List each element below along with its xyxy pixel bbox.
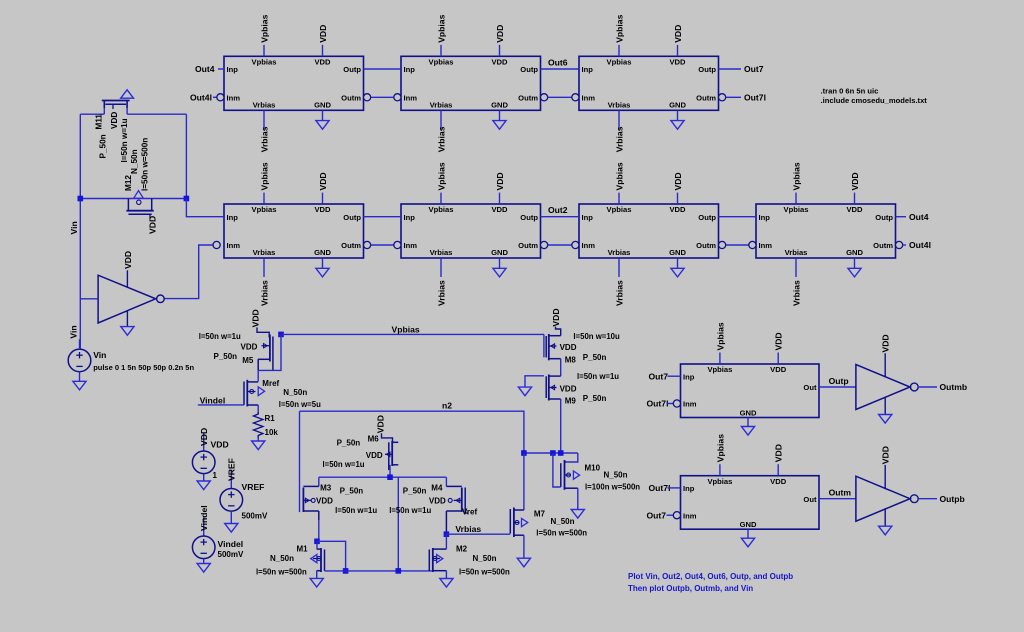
net label Outpb: [940, 494, 965, 504]
wire TG through: [80, 198, 186, 200]
svg-text:VDD: VDD: [148, 216, 158, 234]
label M8: [565, 356, 577, 365]
junction: [343, 568, 349, 574]
transistor M1 (NMOS): [311, 548, 325, 572]
label M12: [124, 175, 133, 191]
net label Vrbias: [259, 126, 269, 152]
svg-text:Vrbias: Vrbias: [253, 248, 276, 257]
svg-text:GND: GND: [491, 248, 508, 257]
svg-text:Vpbias: Vpbias: [252, 205, 277, 214]
wire M9 gate to gnd: [525, 376, 544, 387]
net label Vpbias: [791, 162, 801, 190]
label l=50n w=1u: [199, 332, 241, 341]
wire Vrbias stub: [795, 258, 797, 277]
wire M1 drain stub: [316, 541, 318, 549]
net label n2: [442, 401, 452, 411]
svg-text:P_50n: P_50n: [99, 134, 108, 158]
net label Vrbias: [436, 126, 446, 152]
label VDD M8 bulk: [560, 343, 577, 352]
ground: [493, 121, 506, 130]
svg-text:Vpbias: Vpbias: [392, 325, 420, 335]
pin bubble Outm: [719, 94, 726, 101]
svg-text:.tran 0 6n 5n uic: .tran 0 6n 5n uic: [821, 87, 879, 96]
svg-text:M4: M4: [431, 484, 443, 493]
label l=50n w=5u: [279, 400, 321, 409]
svg-text:Vrbias: Vrbias: [608, 101, 631, 110]
voltage source VREF: [220, 489, 243, 512]
svg-text:pulse 0 1 5n 50p 50p 0.2n 5n: pulse 0 1 5n 50p 50p 0.2n 5n: [93, 363, 194, 372]
ground: [879, 415, 892, 424]
wire Outp: [364, 68, 402, 70]
svg-text:Outp: Outp: [875, 213, 893, 222]
label M6: [368, 435, 380, 444]
voltage source VDD: [192, 451, 215, 474]
wire Outm to Out7l: [726, 96, 741, 98]
svg-text:Inp: Inp: [759, 213, 771, 222]
svg-text:Vrbias: Vrbias: [253, 101, 276, 110]
wire inverter out to Inm: [164, 245, 213, 299]
net label Out4: [195, 64, 215, 74]
svg-text:Vrbias: Vrbias: [785, 248, 808, 257]
wire TG to Inp: [186, 199, 224, 217]
pin bubble Outm: [896, 241, 903, 248]
transistor M6 (PMOS): [385, 441, 398, 470]
net label Vpbias: [715, 322, 725, 350]
inverter buffer A1: [98, 275, 164, 323]
pin bubble Inm: [673, 512, 680, 519]
wire Out4l to Inm: [213, 96, 217, 98]
label M2: [456, 545, 468, 554]
wire center vertical: [397, 477, 399, 571]
pin bubble Inm: [217, 94, 224, 101]
junction: [444, 531, 450, 537]
svg-text:VDD: VDD: [491, 205, 508, 214]
label VDD at M12 gate: [148, 216, 158, 234]
svg-text:Inm: Inm: [227, 241, 241, 250]
svg-text:N_50n: N_50n: [604, 471, 628, 480]
label P_50n: [337, 439, 361, 448]
net label VDD (rotated): [881, 446, 891, 464]
net label Vpbias: [436, 14, 446, 42]
voltage source Vindel: [192, 536, 215, 559]
svg-text:Vrbias: Vrbias: [436, 280, 446, 306]
label Vindel: [218, 539, 244, 549]
svg-text:VDD: VDD: [770, 365, 787, 374]
svg-text:GND: GND: [669, 101, 686, 110]
net label Out7l: [649, 483, 671, 493]
svg-text:Inp: Inp: [582, 213, 594, 222]
wire VDD bracket M5: [257, 327, 269, 337]
wire Vpbias stub: [795, 193, 797, 204]
svg-text:Out7l: Out7l: [744, 93, 766, 103]
wire Vpbias stub: [263, 45, 265, 56]
svg-text:P_50n: P_50n: [337, 439, 361, 448]
label N_50n: [283, 388, 307, 397]
wire GND stub: [854, 258, 856, 268]
label l=50n w=500n: [256, 568, 307, 577]
net label Outp: [829, 376, 849, 386]
svg-text:Vrbias: Vrbias: [608, 248, 631, 257]
svg-text:M1: M1: [297, 545, 309, 554]
net label VDD: [850, 172, 860, 190]
transistor M7 (NMOS): [510, 508, 527, 538]
transistor M2 (NMOS): [429, 548, 446, 572]
label 1: [213, 471, 218, 480]
ground: [440, 579, 453, 588]
net label Vindel: [200, 396, 226, 406]
net label VDD: [318, 172, 328, 190]
wire GND stub: [677, 110, 679, 120]
net label Outmb: [940, 382, 968, 392]
svg-text:500mV: 500mV: [218, 550, 244, 559]
ground: [741, 538, 754, 547]
net label Vpbias: [614, 14, 624, 42]
svg-text:500mV: 500mV: [242, 512, 268, 521]
wire Out to buffer (Outp): [819, 386, 856, 388]
wire Outm: [548, 244, 572, 246]
ground: [671, 121, 684, 130]
label VDD: [211, 440, 229, 450]
wire Vpbias to M8 gate: [543, 334, 545, 357]
net label VDD: [673, 25, 683, 43]
ground: [848, 268, 861, 277]
svg-text:Out7l: Out7l: [649, 483, 671, 493]
svg-text:P_50n: P_50n: [583, 394, 607, 403]
label N_50n: [270, 554, 294, 563]
label P_50n: [403, 487, 427, 496]
subcircuit box X1 (row2): [224, 204, 364, 258]
svg-text:Outm: Outm: [873, 241, 893, 250]
net label Vpbias: [715, 434, 725, 462]
svg-text:VDD: VDD: [846, 205, 863, 214]
svg-text:Vrbias: Vrbias: [259, 126, 269, 152]
svg-text:Then plot Outpb, Outmb, and Vi: Then plot Outpb, Outmb, and Vin: [628, 584, 753, 593]
spice directive .tran: [821, 87, 879, 96]
subcircuit box X3 (row2): [579, 204, 719, 258]
ground: [310, 578, 323, 587]
subcircuit box X6 (row1): [401, 56, 541, 110]
wire Outp: [541, 68, 580, 70]
net label Vrbias: [614, 280, 624, 306]
svg-text:Out: Out: [803, 383, 817, 392]
wire buffer out: [918, 498, 937, 500]
wire inm: [667, 514, 674, 516]
ground: [671, 268, 684, 277]
svg-text:VDD: VDD: [250, 309, 260, 327]
wire Vindel stub: [203, 518, 205, 537]
wire Vrbias: [446, 533, 510, 535]
label l=50n w=1u: [389, 506, 431, 515]
junction: [550, 450, 556, 456]
net label Vindel (rotated): [199, 505, 209, 531]
svg-text:Inp: Inp: [227, 65, 239, 74]
junction: [387, 474, 393, 480]
wire VDD stub: [677, 45, 679, 56]
net label VDD (rotated): [123, 251, 133, 269]
svg-text:GND: GND: [740, 408, 757, 417]
svg-text:Inm: Inm: [582, 241, 596, 250]
svg-text:VDD: VDD: [881, 334, 891, 352]
net label VDD: [318, 25, 328, 43]
transistor M10 (NMOS): [561, 460, 580, 490]
ground: [879, 526, 892, 535]
inverter buffer: [856, 476, 918, 521]
wire M2 drain: [445, 534, 447, 549]
svg-text:Inp: Inp: [683, 372, 695, 381]
svg-text:Out4: Out4: [909, 212, 929, 222]
net label Out4: [909, 212, 929, 222]
net label Out4l: [190, 93, 212, 103]
label l=50n w=1u: [323, 460, 365, 469]
svg-text:Outm: Outm: [341, 94, 361, 103]
pin bubble Outm: [364, 94, 371, 101]
net label VDD (rotated): [881, 334, 891, 352]
wire Outm: [371, 244, 394, 246]
label 500mV: [218, 550, 244, 559]
wire M11 right lead: [127, 113, 186, 115]
label M9: [565, 397, 577, 406]
svg-text:VDD: VDD: [774, 332, 784, 350]
pin bubble Inm: [572, 94, 579, 101]
svg-text:GND: GND: [669, 248, 686, 257]
wire M7 source drop: [523, 535, 525, 558]
spice directive .include: [821, 96, 928, 105]
svg-text:Vpbias: Vpbias: [252, 58, 277, 67]
wire Vrbias stub: [440, 258, 442, 277]
svg-text:Outm: Outm: [518, 94, 538, 103]
label l=50n w=1u: [120, 118, 129, 162]
svg-text:Out4l: Out4l: [909, 240, 931, 250]
net label VDD: [673, 172, 683, 190]
transistor M5 (PMOS): [258, 335, 273, 371]
label l=50n w=500n: [536, 529, 587, 538]
svg-text:Vpbias: Vpbias: [707, 365, 732, 374]
svg-text:Vpbias: Vpbias: [259, 162, 269, 190]
svg-text:M11: M11: [95, 114, 104, 130]
svg-text:Vin: Vin: [69, 325, 79, 338]
wire Vpbias: [281, 333, 544, 335]
svg-text:N_50n: N_50n: [551, 517, 575, 526]
wire GND stub: [499, 110, 501, 120]
svg-text:l=50n w=500n: l=50n w=500n: [141, 138, 150, 191]
svg-text:l=50n w=500n: l=50n w=500n: [536, 529, 587, 538]
pin bubble Inm: [673, 400, 680, 407]
wire inm: [667, 403, 674, 405]
svg-text:N_50n: N_50n: [130, 149, 139, 174]
wire Outm: [548, 96, 572, 98]
svg-text:Vindel: Vindel: [199, 505, 209, 531]
svg-text:n2: n2: [442, 401, 452, 411]
subcircuit box X2 (row2): [401, 204, 541, 258]
wire buffer out: [918, 386, 937, 388]
wire n2 drop to M3 gate: [299, 411, 301, 512]
pin bubble Outm: [364, 241, 371, 248]
wire Vpbias stub: [440, 193, 442, 204]
label M4: [431, 484, 443, 493]
wire M9 drain drop: [560, 399, 562, 453]
wire VDD stub: [777, 464, 779, 476]
wire VDD source stub: [203, 433, 205, 452]
svg-text:l=50n w=1u: l=50n w=1u: [199, 332, 241, 341]
net label VREF (rotated): [227, 458, 237, 481]
svg-text:Inm: Inm: [404, 94, 418, 103]
wire rail to M3: [318, 477, 320, 486]
svg-text:Out7: Out7: [647, 510, 667, 520]
ground: [493, 268, 506, 277]
wire Outp: [541, 216, 580, 218]
label P_50n: [214, 352, 238, 361]
wire Outp to Out7: [719, 68, 742, 70]
net label Out7l: [647, 399, 669, 409]
net label Vrbias: [455, 524, 481, 534]
svg-text:VDD: VDD: [314, 58, 331, 67]
svg-text:M2: M2: [456, 545, 468, 554]
svg-text:Out4: Out4: [195, 64, 215, 74]
wire Outm to Out4l: [903, 244, 906, 246]
label l=50n w=1u: [577, 372, 619, 381]
resistor R1: [254, 412, 263, 438]
wire Outm: [726, 244, 749, 246]
label P_50n: [583, 353, 607, 362]
net label Out6: [548, 58, 568, 68]
svg-text:VDD: VDD: [123, 251, 133, 269]
junction: [184, 196, 190, 202]
svg-text:Vpbias: Vpbias: [715, 434, 725, 462]
net label VDD (rotated): [199, 428, 209, 446]
wire GND stub: [499, 258, 501, 268]
wire Vin rail: [79, 114, 81, 349]
wire Outp: [719, 216, 757, 218]
wire VDD stub: [499, 193, 501, 204]
svg-text:VDD: VDD: [551, 308, 561, 326]
svg-text:VDD: VDD: [881, 446, 891, 464]
wire VDD stub: [677, 193, 679, 204]
svg-text:Out6: Out6: [548, 58, 568, 68]
svg-text:Inp: Inp: [582, 65, 594, 74]
label VDD M3 bulk: [316, 497, 333, 506]
svg-text:l=50n w=500n: l=50n w=500n: [459, 568, 510, 577]
svg-text:M12: M12: [124, 175, 133, 191]
svg-text:VDD: VDD: [110, 112, 119, 129]
label M1: [297, 545, 309, 554]
wire Vpbias stub: [440, 45, 442, 56]
wire Vrbias stub: [618, 258, 620, 277]
wire inp: [668, 487, 681, 489]
net label Vpbias: [259, 14, 269, 42]
pin bubble Inm: [394, 241, 401, 248]
svg-text:VDD: VDD: [366, 451, 383, 460]
wire inverter input: [80, 298, 98, 300]
net label Out7: [647, 510, 667, 520]
wire buffer VDD stub: [884, 465, 886, 489]
junction: [314, 539, 320, 545]
net label Vref: [462, 508, 477, 517]
svg-text:l=50n w=1u: l=50n w=1u: [577, 372, 619, 381]
wire Vindel: [198, 404, 244, 406]
wire M2 source drop: [445, 571, 447, 579]
svg-text:M3: M3: [320, 484, 332, 493]
svg-text:VDD: VDD: [199, 428, 209, 446]
svg-text:Outp: Outp: [343, 213, 361, 222]
net label Vpbias: [392, 325, 420, 335]
wire GND stub: [322, 110, 324, 120]
svg-text:Outp: Outp: [829, 376, 849, 386]
svg-text:Mref: Mref: [262, 379, 279, 388]
pin bubble Inm: [213, 241, 220, 248]
label M3: [320, 484, 332, 493]
svg-text:10k: 10k: [265, 428, 279, 437]
wire right rail: [185, 114, 187, 198]
wire inverter VDD stub: [126, 270, 128, 287]
svg-text:Outm: Outm: [341, 241, 361, 250]
svg-text:Inm: Inm: [404, 241, 418, 250]
junction: [521, 450, 527, 456]
net label VDD: [774, 332, 784, 350]
net label Vin (rotated): [69, 221, 79, 234]
svg-text:VDD: VDD: [241, 343, 258, 352]
label VDD M6 bulk: [366, 451, 383, 460]
svg-text:VDD: VDD: [495, 25, 505, 43]
svg-text:Vpbias: Vpbias: [259, 14, 269, 42]
wire M11 left lead: [80, 113, 104, 115]
wire Outp: [364, 216, 402, 218]
label N_50n: [473, 554, 497, 563]
svg-text:Vrbias: Vrbias: [259, 280, 269, 306]
svg-text:M9: M9: [565, 397, 577, 406]
svg-text:Vindel: Vindel: [200, 396, 226, 406]
net label Out4l: [909, 240, 931, 250]
wire n2 to M7 drain: [523, 453, 525, 510]
svg-text:.include cmosedu_models.txt: .include cmosedu_models.txt: [821, 96, 928, 105]
svg-text:Inp: Inp: [683, 484, 695, 493]
net label Out2: [548, 205, 568, 215]
svg-text:Vrbias: Vrbias: [430, 101, 453, 110]
wire Out4 to Inp: [218, 68, 224, 70]
wire M1 source drop: [316, 571, 318, 579]
svg-text:Out: Out: [803, 495, 817, 504]
wire junction row: [524, 452, 578, 454]
svg-text:Outp: Outp: [520, 213, 538, 222]
svg-text:Vrbias: Vrbias: [614, 126, 624, 152]
label VDD M9 bulk: [560, 384, 577, 393]
pin bubble Outm: [541, 241, 548, 248]
svg-text:1: 1: [213, 471, 218, 480]
svg-text:GND: GND: [314, 101, 331, 110]
label N_50n: [130, 149, 139, 174]
svg-text:VDD: VDD: [673, 25, 683, 43]
svg-text:VDD: VDD: [491, 58, 508, 67]
ground: [121, 327, 134, 336]
junction: [278, 332, 284, 338]
wire VDD stub: [322, 193, 324, 204]
svg-text:VDD: VDD: [560, 343, 577, 352]
svg-text:Vin: Vin: [69, 221, 79, 234]
label P_50n: [99, 134, 108, 158]
label P_50n: [340, 487, 364, 496]
wire M4 gate tick: [465, 512, 468, 514]
net label Vpbias: [436, 162, 446, 190]
transistor M3 (PMOS): [303, 486, 318, 520]
inverter buffer: [856, 365, 918, 410]
svg-text:M6: M6: [368, 435, 380, 444]
label l=100n w=500n: [585, 482, 640, 491]
svg-text:VDD: VDD: [560, 384, 577, 393]
svg-text:P_50n: P_50n: [340, 487, 364, 496]
wire gate rail: [319, 476, 447, 478]
wire VDD stub: [322, 45, 324, 56]
label VDD M4 bulk: [429, 497, 446, 506]
svg-text:l=50n w=1u: l=50n w=1u: [120, 118, 129, 162]
